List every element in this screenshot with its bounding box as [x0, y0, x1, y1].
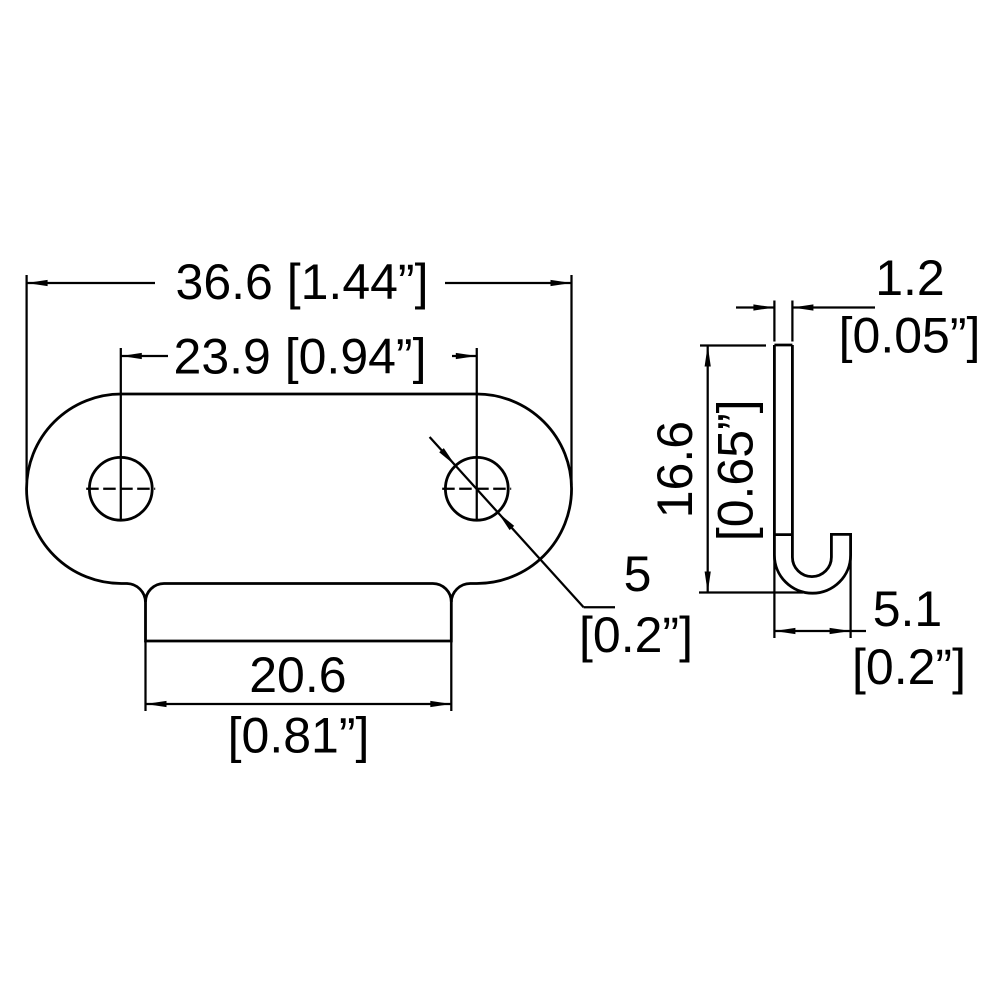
- svg-text:20.6: 20.6: [249, 647, 346, 703]
- left mounting hole: [89, 457, 152, 520]
- dim 5.1 line + arrows: [774, 630, 866, 632]
- bend line across tab (rounded ends): [146, 584, 452, 603]
- hole diameter leader line: [430, 437, 584, 607]
- dim 16.6 line + arrows: [707, 346, 709, 593]
- svg-text:1.2: 1.2: [875, 250, 945, 306]
- dim 20.6 extension lines: [144, 641, 146, 711]
- dim 16.6 extension lines: [700, 344, 766, 346]
- svg-text:[0.65”]: [0.65”]: [708, 399, 764, 541]
- svg-text:16.6: 16.6: [647, 421, 703, 518]
- hole centerlines: [86, 488, 155, 490]
- dim 1.2 extension lines: [773, 301, 775, 342]
- dim 1.2 line + arrows: [736, 306, 774, 308]
- dim 23.9 extension lines (through hole centers): [120, 348, 122, 521]
- svg-text:5: 5: [624, 546, 652, 602]
- right mounting hole: [445, 457, 508, 520]
- dim 36.6 extension lines: [25, 275, 27, 481]
- svg-text:[0.2”]: [0.2”]: [579, 607, 693, 663]
- svg-text:5.1: 5.1: [873, 581, 943, 637]
- side view: J-hook profile: [774, 344, 792, 347]
- svg-text:[0.2”]: [0.2”]: [852, 639, 966, 695]
- dim 20.6 line + arrows: [146, 703, 452, 705]
- dim 36.6 line + arrows: [27, 282, 155, 284]
- svg-text:[0.05”]: [0.05”]: [839, 308, 981, 364]
- svg-text:23.9 [0.94”]: 23.9 [0.94”]: [174, 329, 427, 385]
- dim 23.9 line + arrows: [121, 355, 168, 357]
- side view bend line at plate bottom: [774, 533, 792, 536]
- svg-text:36.6 [1.44”]: 36.6 [1.44”]: [176, 254, 429, 310]
- svg-text:[0.81”]: [0.81”]: [228, 708, 370, 764]
- dim 5.1 extension lines: [773, 555, 775, 638]
- front view: bracket plate outline (stadium with bottom tab): [27, 394, 572, 641]
